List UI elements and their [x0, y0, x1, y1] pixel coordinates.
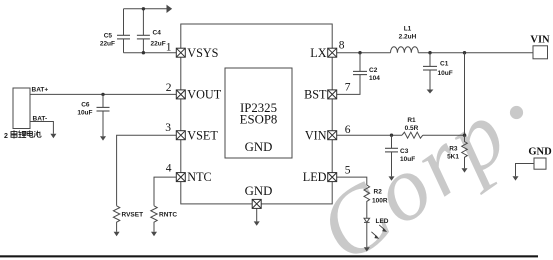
wire GND terminal to ground: [516, 164, 535, 177]
svg-text:0.5R: 0.5R: [405, 125, 419, 132]
svg-text:R2: R2: [374, 189, 383, 196]
pin 4 NTC box: [176, 173, 185, 182]
terminal GND right: [534, 158, 546, 169]
svg-text:8: 8: [339, 39, 345, 51]
ground arrow LED: [364, 247, 370, 251]
resistor RVSET: [113, 206, 119, 232]
svg-text:10uF: 10uF: [400, 156, 415, 163]
pin 6 VIN box: [328, 131, 337, 140]
glyph 锂: [18, 131, 26, 138]
node junction BAT+/C6: [101, 93, 104, 96]
svg-text:GND: GND: [245, 184, 273, 198]
node junction VSYS rail: [142, 51, 145, 54]
svg-text:GND: GND: [245, 140, 273, 154]
capacitor C5: [117, 35, 130, 39]
resistor R1: [402, 132, 423, 138]
capacitor C6: [102, 94, 104, 107]
wire VSYS rail: [124, 52, 177, 54]
svg-text:VSET: VSET: [187, 128, 218, 142]
svg-text:LED: LED: [376, 218, 389, 225]
svg-text:NTC: NTC: [187, 170, 211, 184]
ground arrow RVSET: [114, 232, 120, 236]
pin 1 VSYS box: [176, 48, 185, 57]
ground arrow C6: [100, 136, 106, 140]
svg-text:5K1: 5K1: [447, 154, 459, 161]
watermark Corp.: [300, 80, 527, 260]
wire BAT+: [30, 93, 176, 95]
svg-text:7: 7: [345, 81, 351, 93]
capacitor C4: [137, 35, 150, 39]
svg-text:RVSET: RVSET: [122, 212, 144, 219]
node junction VIN column: [463, 51, 466, 54]
capacitor C3: [391, 135, 393, 148]
svg-text:1: 1: [166, 42, 172, 54]
pin 7 BST box: [328, 90, 337, 99]
battery 2串锂电池: [13, 88, 30, 129]
ground arrow C3: [389, 176, 395, 180]
svg-text:GND: GND: [528, 147, 552, 158]
svg-text:10uF: 10uF: [438, 70, 453, 77]
svg-text:22uF: 22uF: [100, 41, 115, 48]
resistor R3: [462, 135, 468, 168]
svg-text:VIN: VIN: [530, 35, 550, 46]
svg-text:100R: 100R: [372, 198, 388, 205]
svg-text:Corp: Corp: [300, 80, 527, 260]
wire LX rail: [337, 52, 391, 54]
LED emission arrows: [371, 225, 387, 239]
wire VSET to RVSET: [117, 135, 177, 206]
bottom border line: [0, 255, 538, 257]
GND pin box bottom: [252, 199, 261, 208]
wire NTC to RNTC: [154, 177, 176, 206]
svg-text:C6: C6: [81, 102, 90, 109]
ground arrow R3: [462, 168, 468, 172]
ground arrow IC GND: [254, 221, 260, 225]
node junction C1: [428, 51, 431, 54]
battery label 2串锂电池 (drawn glyphs): [4, 130, 41, 140]
svg-text:2: 2: [166, 82, 172, 94]
ground arrow GND terminal: [513, 176, 519, 180]
svg-text:6: 6: [345, 124, 351, 136]
wire BAT- to ground: [30, 122, 53, 134]
svg-text:ESOP8: ESOP8: [240, 113, 278, 127]
svg-text:2.2uH: 2.2uH: [399, 34, 417, 41]
terminal VIN: [533, 46, 548, 59]
svg-text:22uF: 22uF: [151, 41, 166, 48]
pin 8 LX box: [328, 48, 337, 57]
svg-text:C2: C2: [369, 67, 378, 74]
pin 2 VOUT box: [176, 90, 185, 99]
svg-text:LED: LED: [303, 170, 327, 184]
IC U1 inner rectangle: [225, 68, 292, 158]
wire LED pin to R2: [337, 177, 367, 185]
GND pin lead below IC: [256, 208, 258, 221]
ground arrow C1: [427, 90, 434, 94]
pin 5 LED box: [328, 173, 337, 182]
svg-text:C4: C4: [153, 30, 162, 37]
wire L1 to VIN box: [418, 52, 533, 54]
svg-text:10uF: 10uF: [77, 110, 92, 117]
wire top rail to arrow: [124, 6, 172, 12]
svg-text:2: 2: [4, 133, 8, 140]
ground arrow RNTC: [151, 232, 157, 236]
IC U1 IP2325 body outline: [181, 24, 332, 204]
node junction R1/R3: [463, 134, 466, 137]
svg-text:R3: R3: [449, 146, 458, 153]
capacitor C2: [359, 53, 361, 72]
resistor R2: [364, 185, 370, 219]
inductor L1: [391, 47, 419, 53]
svg-text:C3: C3: [400, 148, 409, 155]
LED D1 diode: [364, 218, 370, 222]
svg-text:104: 104: [369, 75, 380, 82]
node junction top: [142, 7, 145, 10]
svg-text:5: 5: [345, 165, 351, 177]
svg-text:VOUT: VOUT: [187, 88, 221, 102]
svg-text:C5: C5: [104, 33, 113, 40]
wire VIN pin row: [337, 134, 402, 136]
glyph 串: [11, 130, 17, 138]
svg-text:VSYS: VSYS: [187, 46, 218, 60]
svg-text:BAT+: BAT+: [32, 87, 49, 94]
wire C2 to BST: [337, 75, 360, 95]
glyph 电: [27, 130, 33, 137]
svg-text:VIN: VIN: [305, 128, 327, 142]
glyph 池: [34, 131, 41, 138]
svg-text:R1: R1: [407, 117, 416, 124]
pin 3 VSET box: [176, 131, 185, 140]
node junction LX/C2: [358, 51, 361, 54]
wire C5 left leg: [123, 9, 125, 36]
capacitor C1: [429, 53, 431, 67]
svg-text:BST: BST: [304, 88, 327, 102]
svg-text:3: 3: [165, 122, 171, 134]
wire C4 leg: [142, 9, 144, 36]
svg-text:4: 4: [166, 163, 172, 175]
svg-text:LX: LX: [310, 46, 326, 60]
node junction C3: [390, 134, 393, 137]
svg-text:C1: C1: [440, 61, 449, 68]
wire VIN column down: [464, 53, 466, 136]
ground arrow BAT-: [50, 134, 56, 138]
resistor RNTC: [151, 206, 157, 232]
svg-text:RNTC: RNTC: [159, 212, 177, 219]
svg-text:L1: L1: [404, 26, 412, 33]
